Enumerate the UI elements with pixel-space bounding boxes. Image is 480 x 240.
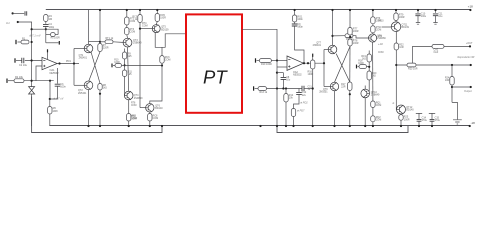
node [99,41,101,43]
transistor QT6 [146,104,154,112]
diode D2 [29,90,35,94]
resistor RT8 [348,39,352,46]
wire [126,35,129,38]
wire OA2 plus stub [277,66,287,68]
terminal OA1 V+ [47,49,49,52]
svg-text:CA1OuF: CA1OuF [434,49,439,55]
wire feedback around OA2 [295,26,304,63]
resistor R24 [450,77,454,86]
wire [294,22,296,23]
resistor R4 [44,15,48,22]
svg-text:COM: COM [378,52,383,54]
node [400,125,402,127]
wire [276,61,278,89]
wire [285,102,287,126]
node [31,80,33,82]
node [31,28,33,30]
svg-text:+-18: +-18 [378,44,383,46]
wire [8,80,14,82]
wire [128,100,130,114]
svg-text:R2210R: R2210R [399,44,404,50]
resistor R5 [51,33,56,37]
wire PT output to OA2 input [242,29,277,60]
node input terminal [17,21,19,23]
resistor RT3 [125,28,129,35]
svg-text:PD1: PD1 [66,60,71,63]
wire [417,10,419,13]
resistor R10 [259,59,271,63]
node [368,66,370,68]
node [292,125,294,127]
transistor QT11 [391,22,401,32]
terminal R10 left [255,58,257,62]
node [395,9,397,11]
wire QT11 base [382,26,391,28]
capacitor C11 [302,86,304,92]
wire [124,49,126,53]
wire [257,60,260,62]
node output terminal [470,64,472,66]
capacitor C10 [415,14,420,16]
node [469,45,471,47]
capacitor C11b [433,14,438,16]
resistor R17 [348,82,352,91]
svg-text:RC6COM: RC6COM [165,56,171,62]
svg-text:Output: Output [464,89,472,93]
wire [45,22,47,24]
wire QT6 emitter to mid row [150,65,162,103]
resistor RQ2 [371,116,375,122]
terminal mid row right [356,65,358,69]
wire [298,89,300,93]
wire QT3 base [113,41,123,44]
svg-text:R191k5: R191k5 [361,55,366,61]
wire [294,10,296,15]
wire [282,79,284,88]
wire [99,90,101,126]
svg-text:+OUT: +OUT [466,42,473,45]
wire [451,65,453,77]
wire upper output row [412,45,470,47]
node [331,35,333,37]
resistor RC5 [155,14,159,22]
ground [453,120,462,124]
svg-text:R13 1k: R13 1k [260,91,268,94]
wire down to QT12 base [395,50,397,110]
wire output column [451,85,453,102]
wire [13,12,25,14]
transistor QT9 [330,82,338,90]
svg-text:In1: In1 [6,21,10,25]
wire [435,16,437,23]
svg-text:⊕ 7.1 mV: ⊕ 7.1 mV [29,34,41,38]
wire QT9 emitter to -rail [334,91,336,126]
resistor R8 [98,84,102,91]
wire [372,24,374,26]
wire op-amp non-inv input stub [36,66,42,81]
node output [451,86,453,88]
wire QT1 collector to +rail [88,10,90,44]
svg-text:R23 10R: R23 10R [408,67,418,70]
svg-text:R5 100R: R5 100R [51,38,60,40]
wire [276,89,278,127]
node [418,125,420,127]
wire [349,46,351,82]
wire [267,88,303,90]
capacitor C3 [55,84,61,86]
node [372,125,374,127]
terminal R1 left [15,40,17,44]
node [31,59,33,61]
node top-left test point [12,12,14,14]
node [149,125,151,127]
resistor RT2 [125,17,129,25]
node [303,62,305,64]
wire [156,10,158,14]
wire QT5 base [140,28,152,30]
wire [367,66,370,68]
resistor R23 [407,63,416,67]
capacitor C1 [25,11,27,15]
wire mid horizontal row [125,64,162,66]
wire [400,120,402,126]
node [331,9,333,11]
wire [349,91,351,127]
wire [411,46,413,65]
node [73,62,75,64]
ground C10 [416,23,420,25]
node [99,9,101,11]
resistor RC3 [138,15,142,23]
wire [312,56,314,60]
node [349,9,351,11]
node B [49,80,51,82]
resistor RG1 [292,15,296,22]
resistor RT1 [105,40,113,44]
wire [282,73,284,78]
node [364,125,366,127]
node [99,125,101,127]
capacitor C8 [281,77,287,79]
wire QT3 to QT4 [128,47,129,91]
wire [349,10,351,28]
wire QT5 emitter to PT [155,32,186,47]
wire [372,122,374,126]
node [312,125,314,127]
capacitor C4 [43,24,49,26]
resistor R16 [311,60,315,69]
resistor R7 [98,44,102,52]
wire [122,64,125,66]
wire [149,121,151,126]
resistor RC6 [160,56,164,64]
resistor R9 [122,52,126,59]
resistor R10b [115,64,122,68]
capacitor C15 plates [430,120,435,122]
wire column x140 [139,23,141,108]
op-amp OA1 [42,57,57,69]
svg-text:R2410R: R2410R [445,77,450,83]
node A inverting network [31,41,33,43]
capacitor C14 [416,113,422,119]
wire [24,80,54,82]
node [276,72,278,74]
svg-text:Reproduktor 8R: Reproduktor 8R [458,56,475,59]
resistor R2 [14,79,24,83]
resistor R6 [48,107,52,115]
node [349,93,351,95]
terminal R16 top [312,54,314,57]
block PT red box [186,14,242,112]
wire column x100 upper [99,10,101,44]
terminal mid row [111,64,113,68]
wire [46,42,59,44]
resistor RC8 [148,114,152,122]
wire [305,88,313,90]
wire [126,10,128,17]
node [307,62,309,64]
node loop left join [161,125,163,127]
node +18 rail right end [469,9,471,11]
node OA1 out [58,62,60,64]
wire [324,86,330,88]
wire [372,33,374,34]
wire [358,66,360,68]
node [282,87,284,89]
node [333,125,335,127]
transistor QT3 [123,38,132,47]
svg-text:⊕ 4.7 uV: ⊕ 4.7 uV [53,97,64,101]
node [161,64,163,66]
resistor R19 [367,54,371,62]
wire QT8 base [353,36,369,38]
wire [18,41,22,43]
svg-text:RT10: RT10 [378,21,384,23]
transistor QT2 [84,81,93,90]
wire [46,29,58,34]
svg-text:RT10COM: RT10COM [376,26,382,32]
resistor R22 [394,43,398,50]
capacitor C14 plates [417,120,422,122]
node [285,125,287,127]
node [395,64,397,66]
wire [312,69,314,126]
node C11 rail tap [434,9,436,11]
resistor R11 [122,70,126,77]
wire QT6 base [140,107,146,109]
diode D1 [29,87,35,91]
wire [364,98,366,126]
wire ground return loop right segment [277,126,408,133]
capacitor C9 [292,24,298,26]
ground C11 [433,23,437,25]
wire [161,47,163,55]
wire base column QT7 QT9 [323,50,325,87]
wire [372,108,374,116]
node [285,87,287,89]
resistor RT9 [394,13,398,21]
resistor RT7 [348,28,352,36]
capacitor CA1 [432,45,444,49]
node feedback [45,28,47,30]
node [349,125,351,127]
wire [161,63,163,65]
node [276,87,278,89]
wire [372,10,374,17]
svg-text:+18: +18 [468,4,473,8]
op-amp OA2 [287,56,304,70]
terminal C2 left [14,58,16,62]
capacitor C15 [429,113,435,119]
wire [46,34,51,36]
resistor RT5 [127,114,131,122]
node [323,62,325,64]
node [99,93,101,95]
wire [89,41,101,43]
resistor R20 [367,71,371,80]
resistor R14 [284,94,288,103]
node [276,59,278,61]
wire [128,121,130,126]
wire QT10 top stub [364,86,366,90]
svg-text:RC8COM: RC8COM [153,115,159,121]
wire cross-coupling X left [89,52,100,84]
node [126,9,128,11]
wire OA1 output [57,63,79,65]
resistor R1 [21,40,29,44]
node [349,36,351,38]
wire [395,21,397,22]
svg-text:RT1 1k: RT1 1k [106,37,114,40]
wire [49,114,51,126]
wire [50,86,58,99]
wire +V top supply rail [46,9,471,11]
wire [333,35,346,37]
node [139,28,141,30]
wire -V bottom supply rail [49,125,469,127]
wire input column down to -rail [18,22,32,126]
wire base column Q1 Q2 [73,49,75,86]
wire [16,60,22,62]
wire [74,84,84,86]
node [312,87,314,89]
transistor QT7 [328,45,337,54]
svg-text:RQ2COM: RQ2COM [376,116,382,122]
wire to QT4 base [123,77,125,96]
wire [124,59,126,70]
node C10 rail tap [417,9,419,11]
wire [57,68,59,84]
wire [349,35,351,39]
wire [368,51,370,55]
wire QT7 collector column [332,10,334,45]
resistor R13 [258,87,267,91]
capacitor C12 [296,93,302,95]
wire [156,22,157,25]
wire [139,10,141,15]
svg-text:⊕ PD7: ⊕ PD7 [297,110,305,113]
wire [255,88,258,90]
wire feedback to input column [32,28,46,30]
wire [324,49,328,51]
capacitor C2 [22,58,24,64]
wire [294,95,300,109]
node [139,9,141,11]
transistor QT1 [84,44,93,53]
node [128,125,130,127]
node [87,125,89,127]
wire to op-amp inverting input [25,60,42,62]
node [294,9,296,11]
wire [277,72,283,74]
wire OA2 output [304,62,325,64]
wire [395,10,397,13]
resistor R25 [399,115,403,121]
svg-text:⊕ PD2: ⊕ PD2 [300,102,308,105]
transistor QT8 [369,34,377,42]
transistor QT10 [361,89,370,98]
svg-text:R10 100R: R10 100R [261,63,272,66]
svg-text:RQ1COM: RQ1COM [376,102,382,108]
wire [100,41,105,43]
wire [431,121,433,126]
wire [285,89,287,94]
node [451,64,453,66]
svg-text:R2 10k: R2 10k [15,76,24,79]
wire OA2 inverting input [271,60,287,62]
node [259,125,261,127]
wire QT8 emitter down [372,42,374,101]
wire [293,117,295,127]
svg-text:R1722R: R1722R [341,83,346,89]
node [431,125,433,127]
wire [418,121,420,126]
transistor QT12 [397,105,406,114]
resistor R15 [291,109,295,117]
wire [113,64,115,66]
wire [435,10,437,13]
terminal branch [58,41,60,45]
node mid row [124,64,126,66]
svg-text:PT: PT [203,67,228,88]
wire QT2 to -rail [88,90,90,126]
svg-text:C2 10u: C2 10u [19,64,28,67]
svg-text:-18: -18 [471,121,476,125]
wire [49,99,51,107]
wire [417,16,419,23]
wire [126,25,128,28]
node C [49,98,51,100]
node [372,9,374,11]
wire ground return loop left segment [32,97,162,133]
wire [49,81,52,99]
wire [74,48,84,50]
wire [368,62,370,71]
wire [400,113,402,116]
resistor RT9b [371,17,375,24]
resistor R18 [359,65,367,69]
terminal R13 left [253,86,255,90]
node [156,9,158,11]
resistor RQ1 [371,101,375,108]
resistor RT6 [345,34,353,38]
node loop descend [276,125,278,127]
wire zobel to ground [452,102,457,119]
wire [149,112,151,114]
wire cross-coupling X right [335,47,351,83]
transistor QT4 [124,91,133,100]
node -18 rail right end [469,125,471,127]
